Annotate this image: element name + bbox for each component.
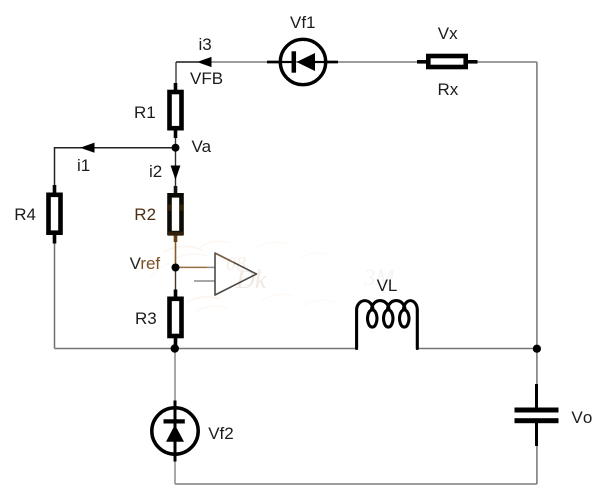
wire middle bus left segment xyxy=(55,348,357,350)
wire left bus from R4 bottom to ground bus xyxy=(54,243,56,349)
label Vref xyxy=(130,255,161,272)
wire node Va left with corner down to R4 xyxy=(55,148,176,186)
label Vx xyxy=(438,25,458,42)
resistor R3 xyxy=(170,290,182,346)
label R4 xyxy=(14,206,36,223)
label i3 xyxy=(199,36,212,53)
label i1 xyxy=(77,157,90,174)
label R1 xyxy=(134,104,156,121)
label Vo xyxy=(571,409,593,426)
wire right vertical below capacitor xyxy=(536,445,538,484)
resistor R1 xyxy=(170,83,182,138)
label Vf1 xyxy=(290,14,316,31)
diode source Vf2 xyxy=(152,401,198,462)
current arrow i1 xyxy=(80,143,95,153)
wire FB segment into i3 arrow xyxy=(176,61,198,63)
label R2 xyxy=(134,206,156,223)
node Vref junction dot xyxy=(172,264,180,272)
wire from R3 node down to Vf2 xyxy=(174,349,176,403)
wire bottom horizontal xyxy=(175,483,537,485)
label i2 xyxy=(149,163,162,180)
svg-text:08: 08 xyxy=(226,253,246,275)
wire right vertical from Rx corner down to output node xyxy=(536,62,538,385)
inductor VL coil xyxy=(357,301,418,349)
label Va xyxy=(192,138,212,155)
label Rx xyxy=(438,81,459,98)
wire node Va down to R2 (i2 branch) xyxy=(175,148,177,187)
wire top horizontal FB net xyxy=(176,61,537,63)
label VFB xyxy=(190,70,223,87)
node Va junction dot xyxy=(172,144,180,152)
diode source Vf1 xyxy=(267,39,338,84)
capacitor Vo xyxy=(515,384,559,446)
wire R2 bottom to Vref node (brown tinted) xyxy=(175,241,177,268)
wire corner above R1 xyxy=(175,62,177,84)
current arrow i2 xyxy=(171,166,181,181)
label Vf2 xyxy=(208,425,234,442)
wire Vref node to op-amp input xyxy=(176,266,208,268)
wire Vref node down to R3 top xyxy=(175,268,177,292)
wire from Vf2 bottom to bottom bus corner xyxy=(174,460,176,484)
op-amp comparator triangle xyxy=(215,253,257,295)
resistor R2 xyxy=(170,186,182,242)
resistor Rx horizontal xyxy=(417,56,478,67)
wire R1 to node Va xyxy=(175,137,177,148)
wire middle bus right segment after inductor xyxy=(417,348,537,350)
node junction dot R3/ground bus xyxy=(171,344,179,352)
node junction dot right (output node) xyxy=(533,345,541,353)
label VL xyxy=(377,277,398,294)
label R3 xyxy=(135,310,157,327)
current arrow i3 xyxy=(197,57,212,67)
wire op-amp lower input stub xyxy=(194,280,215,282)
resistor R4 xyxy=(49,185,61,244)
